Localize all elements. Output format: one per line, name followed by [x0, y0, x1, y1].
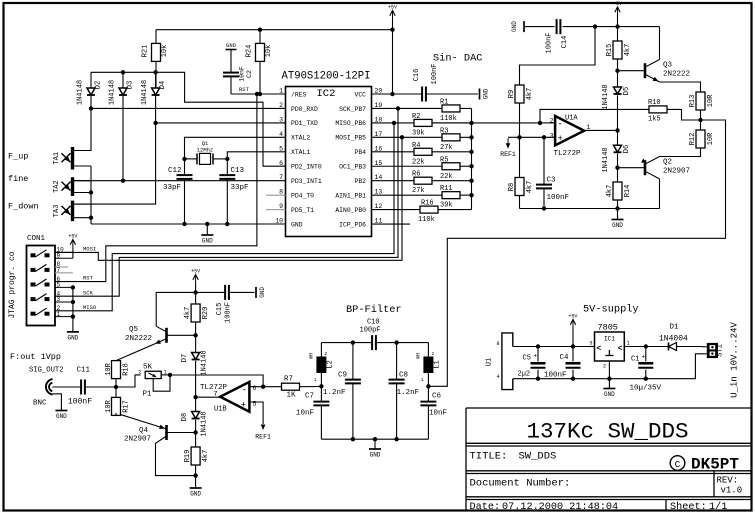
svg-text:22k: 22k	[440, 173, 453, 181]
svg-text:D7: D7	[181, 354, 189, 362]
inductor L1	[416, 343, 442, 387]
pin stubs CON1	[55, 252, 73, 316]
ref REF1 lower	[255, 424, 271, 441]
resistor R4	[372, 142, 472, 167]
svg-text:2N2907: 2N2907	[663, 168, 690, 176]
ic IC2 box	[286, 87, 372, 237]
svg-text:-: -	[242, 386, 247, 396]
svg-text:1: 1	[421, 377, 424, 383]
transistor Q2	[641, 157, 690, 179]
resistor R13	[689, 92, 715, 130]
wire supply bottom rail	[513, 354, 703, 379]
svg-text:TL272P: TL272P	[554, 150, 582, 158]
svg-text:D6: D6	[623, 145, 631, 153]
node output node	[114, 385, 118, 389]
ground BP filter	[369, 439, 381, 458]
svg-text:SW_DDS: SW_DDS	[519, 451, 557, 463]
node bus row 6	[469, 179, 473, 183]
power +5V supply	[568, 314, 577, 347]
wire Q3 collector	[659, 27, 661, 60]
svg-text:1N4004: 1N4004	[659, 335, 688, 344]
label U_in	[730, 322, 740, 398]
ic IC2 pin numbers	[275, 88, 382, 225]
node output D5 junction	[615, 128, 619, 132]
ground C15 side	[256, 287, 266, 298]
wire DAC output to opamp	[432, 122, 540, 124]
svg-text:+: +	[241, 401, 246, 411]
resistor R2	[372, 113, 472, 137]
node SCK tap	[396, 106, 400, 110]
node bus row 2	[469, 121, 473, 125]
svg-text:D1: D1	[670, 324, 680, 332]
svg-text:R5: R5	[440, 156, 448, 164]
svg-text:v1.0: v1.0	[721, 486, 743, 496]
node C4 top	[571, 344, 575, 348]
svg-text:R15: R15	[606, 44, 614, 57]
svg-text:C14: C14	[561, 36, 569, 49]
node D4 rail junction	[153, 70, 157, 74]
opamp U1B	[200, 382, 257, 413]
label TITLE row	[470, 451, 557, 463]
node +5V top rail junction	[390, 28, 394, 32]
node P1 feedback junction	[168, 373, 172, 377]
svg-text:10nF: 10nF	[429, 410, 447, 418]
node C4 bottom	[571, 377, 575, 381]
wire supply top rail	[513, 346, 595, 348]
svg-text:10R: 10R	[707, 132, 715, 145]
node CON1 pin5 gnd	[71, 285, 75, 289]
node +5V driver junction	[615, 24, 619, 28]
power +5V output stage	[191, 269, 200, 305]
node C1 top	[644, 344, 648, 348]
svg-text:C16: C16	[413, 69, 421, 82]
svg-text:PD1_TXD: PD1_TXD	[291, 120, 318, 127]
node CON1 pin1 gnd	[71, 314, 75, 318]
ground R19	[190, 488, 202, 498]
svg-text:GND: GND	[56, 413, 67, 420]
power +5V driver	[613, 1, 622, 16]
svg-text:39k: 39k	[440, 202, 453, 210]
svg-text:4k7: 4k7	[202, 450, 210, 463]
svg-text:GND: GND	[259, 287, 266, 298]
node C3 top junction	[542, 135, 546, 139]
diode D2	[77, 80, 103, 105]
label SIG_OUT2	[29, 367, 64, 375]
svg-text:MISO: MISO	[83, 304, 97, 311]
capacitor C6	[420, 386, 447, 439]
svg-text:AIN1_PB1: AIN1_PB1	[335, 192, 366, 199]
svg-text:REF1: REF1	[500, 151, 516, 158]
node bus row 3	[469, 135, 473, 139]
label JTAG prog connector	[8, 251, 17, 318]
wire U1B output	[196, 396, 221, 398]
pin PD4_T0 stub	[266, 194, 286, 196]
svg-text:2N2222: 2N2222	[663, 71, 690, 79]
wire +5V horizontal rail	[156, 29, 393, 31]
svg-text:137Kc SW_DDS: 137Kc SW_DDS	[527, 419, 689, 445]
svg-text:4k7: 4k7	[624, 44, 632, 57]
svg-text:RST: RST	[83, 275, 94, 282]
ground above C2	[226, 42, 237, 72]
svg-text:Sheet:: Sheet:	[670, 501, 707, 513]
svg-text:GND: GND	[370, 452, 381, 459]
svg-text:Q3: Q3	[663, 62, 673, 70]
svg-text:GND: GND	[291, 221, 303, 228]
svg-text:2N2907: 2N2907	[124, 436, 151, 444]
switch TA2	[53, 177, 91, 196]
label copyright DK5PT	[670, 456, 739, 474]
label main title	[527, 419, 689, 445]
label F_down	[8, 202, 39, 212]
svg-text:+: +	[558, 134, 563, 144]
svg-text:100nF: 100nF	[547, 194, 570, 202]
connector ST1	[703, 343, 725, 358]
wire D2 anode to TA1 and PD0_RXD	[74, 95, 92, 151]
svg-text:4: 4	[496, 374, 499, 380]
resistor R14	[606, 182, 632, 209]
connector CON1 box	[27, 246, 56, 326]
svg-text:IC2: IC2	[317, 88, 336, 100]
diode D7	[181, 335, 209, 375]
svg-text:TITLE:: TITLE:	[470, 451, 508, 463]
svg-text:-: -	[558, 120, 563, 130]
svg-text:U1A: U1A	[565, 114, 578, 122]
svg-text:C12: C12	[168, 167, 182, 175]
svg-text:DK5PT: DK5PT	[691, 456, 739, 474]
svg-text:RST: RST	[239, 86, 250, 93]
svg-text:MOSI_PB5: MOSI_PB5	[335, 135, 366, 142]
svg-text:GND: GND	[202, 238, 213, 245]
wire Q5 base	[167, 334, 196, 336]
resistor R20	[184, 304, 210, 335]
wire PD1_TXD row	[156, 122, 286, 124]
svg-text:+: +	[642, 354, 646, 361]
svg-text:1.2nF: 1.2nF	[323, 389, 346, 397]
node bus row 4	[469, 150, 473, 154]
svg-text:3: 3	[589, 340, 592, 347]
svg-text:10k: 10k	[265, 45, 273, 58]
label Sin- DAC	[433, 53, 482, 65]
svg-text:1.2nF: 1.2nF	[397, 389, 420, 397]
svg-text:R24: R24	[246, 45, 254, 58]
wire Q3 base	[618, 70, 646, 72]
ic IC1 7805	[589, 332, 630, 370]
wire Q2 collector	[659, 179, 661, 209]
svg-text:1: 1	[279, 88, 283, 95]
svg-text:SCK: SCK	[83, 289, 94, 296]
svg-text:7: 7	[279, 174, 283, 181]
node MISO tap	[392, 121, 396, 125]
transistor Q5	[116, 326, 167, 361]
svg-text:+: +	[534, 353, 538, 360]
diode D6	[602, 130, 631, 172]
svg-text:R8: R8	[508, 183, 516, 191]
svg-text:10R: 10R	[707, 94, 715, 107]
svg-text:<: <	[597, 345, 602, 354]
inductor L2	[309, 343, 335, 387]
svg-text:1N4148: 1N4148	[602, 147, 610, 172]
svg-text:C2: C2	[246, 70, 253, 78]
svg-text:SIG_OUT2: SIG_OUT2	[29, 367, 64, 375]
node Q3 base junction	[615, 69, 619, 73]
svg-text:U1: U1	[486, 358, 494, 366]
svg-text:2N2222: 2N2222	[125, 335, 152, 343]
svg-text:10R: 10R	[105, 362, 113, 375]
label RST net	[239, 86, 250, 93]
resistor R3	[372, 127, 472, 152]
node C12 gnd junction	[182, 222, 186, 226]
power +5V CON1	[68, 234, 77, 259]
capacitor C12	[163, 159, 193, 224]
node bus row 5	[469, 164, 473, 168]
diode D5	[602, 84, 631, 109]
node C14 R9 junction	[593, 24, 597, 28]
label 5V-supply	[583, 304, 639, 316]
wire XTAL2 to crystal	[185, 137, 286, 159]
svg-text:1/1: 1/1	[709, 501, 727, 513]
svg-text:C7: C7	[305, 393, 314, 401]
svg-text:7805: 7805	[598, 323, 618, 333]
svg-text:33pF: 33pF	[231, 184, 249, 192]
node C9 gnd junction	[351, 437, 355, 441]
wire switch ground bus	[90, 166, 92, 224]
wire Q3 emitter to R13	[660, 82, 701, 92]
svg-text:Q5: Q5	[129, 326, 139, 334]
svg-text:2: 2	[138, 369, 141, 376]
svg-text:/RES: /RES	[291, 91, 307, 98]
node D2 PD0_RXD junction	[89, 106, 93, 110]
svg-text:C3: C3	[547, 177, 557, 185]
svg-text:3: 3	[550, 133, 554, 140]
node TA2 gnd junction	[89, 190, 93, 194]
svg-text:4k7: 4k7	[184, 307, 192, 320]
svg-text:R12: R12	[689, 133, 697, 146]
wire D6 to Q2 base	[618, 154, 646, 182]
connector BNC	[33, 379, 81, 407]
capacitor C8	[389, 343, 420, 440]
svg-text:C4: C4	[560, 354, 570, 362]
svg-text:GND: GND	[604, 391, 615, 398]
wire feedback up	[540, 109, 649, 123]
svg-text:C: C	[675, 459, 681, 470]
svg-text:Q2: Q2	[663, 159, 672, 167]
node R19 gnd junction	[193, 473, 197, 477]
node R24 bottom junction	[258, 92, 262, 96]
svg-text:PB2: PB2	[354, 178, 366, 185]
capacitor C13	[219, 159, 248, 224]
ground IC1	[603, 379, 615, 398]
wire emitter node to BP filter	[428, 120, 725, 386]
svg-text:GND: GND	[511, 21, 518, 32]
svg-text:100pF: 100pF	[360, 327, 381, 335]
svg-text:F:out 1Vpp: F:out 1Vpp	[10, 352, 61, 362]
svg-text:ST1: ST1	[717, 344, 725, 357]
svg-text:TA1: TA1	[53, 152, 61, 165]
svg-text:Document Number:: Document Number:	[470, 478, 571, 490]
node U1B out junction	[193, 395, 197, 399]
svg-text:REV:: REV:	[717, 476, 739, 486]
wire DAC summing bus	[471, 108, 473, 209]
svg-text:1: 1	[314, 377, 317, 383]
svg-text:5K: 5K	[143, 364, 153, 372]
svg-text:D2: D2	[95, 81, 103, 89]
wire inv input	[540, 122, 555, 124]
svg-text:TL272P: TL272P	[200, 384, 228, 392]
label REV	[717, 476, 743, 496]
resistor R21	[142, 30, 170, 88]
node C5 bottom	[536, 377, 540, 381]
capacitor C3	[536, 137, 569, 208]
svg-text:6: 6	[279, 160, 283, 167]
svg-text:R16: R16	[421, 200, 434, 208]
label Sheet	[670, 501, 727, 513]
node RST vertical junction	[255, 92, 259, 96]
node C8 gnd junction	[394, 437, 398, 441]
svg-text:R9: R9	[508, 90, 516, 98]
svg-text:XTAL1: XTAL1	[291, 149, 310, 156]
label F:out 1Vpp	[10, 352, 61, 362]
node R24 top junction	[258, 28, 262, 32]
node CON1 pin3 gnd	[71, 300, 75, 304]
svg-text:C13: C13	[231, 167, 245, 175]
crystal Q1	[185, 140, 228, 164]
svg-text:3: 3	[279, 116, 283, 123]
svg-text:1N4148: 1N4148	[201, 411, 209, 436]
svg-text:fine: fine	[8, 174, 28, 184]
svg-text:ICP_PD6: ICP_PD6	[339, 221, 366, 228]
node C8 top junction	[394, 340, 398, 344]
svg-text:L2: L2	[327, 360, 335, 368]
ground BNC	[53, 394, 68, 420]
svg-text:Q4: Q4	[139, 427, 149, 435]
switch TA1	[53, 147, 91, 170]
svg-text:R21: R21	[142, 45, 150, 58]
svg-text:5V-supply: 5V-supply	[583, 304, 639, 316]
svg-text:27k: 27k	[412, 187, 425, 195]
svg-text:GND: GND	[67, 334, 78, 341]
node C5 top	[536, 344, 540, 348]
wire BP gnd rail	[321, 438, 428, 440]
resistor R19	[184, 447, 210, 488]
wire MISO route	[55, 123, 394, 311]
node emitter node	[698, 118, 702, 122]
capacitor C9	[323, 343, 361, 440]
svg-text:CON1: CON1	[27, 235, 46, 243]
wire IC1 out rail	[624, 346, 669, 348]
svg-text:39k: 39k	[412, 129, 425, 137]
svg-text:R20: R20	[202, 307, 210, 320]
svg-text:22k: 22k	[412, 158, 425, 166]
resistor R16	[372, 200, 472, 225]
svg-text:U1B: U1B	[214, 405, 227, 413]
svg-text:5: 5	[279, 145, 283, 152]
svg-text:C11: C11	[77, 367, 91, 375]
label 7805	[598, 323, 618, 333]
svg-text:VCC: VCC	[354, 91, 366, 98]
wire IC1 pin2	[608, 361, 610, 379]
resistor R15	[606, 41, 632, 87]
svg-text:8: 8	[496, 341, 499, 347]
node gnd stub junction	[205, 222, 209, 226]
wire output node to P1	[116, 375, 141, 387]
node Q2 base junction	[615, 166, 619, 170]
label F_up	[8, 152, 28, 162]
wire TA2 top contact	[74, 180, 124, 182]
wire U1B feedback	[170, 375, 263, 387]
svg-text:GND: GND	[483, 88, 490, 99]
diode D4	[141, 80, 167, 105]
svg-text:100nF: 100nF	[546, 32, 554, 53]
label Document Number	[470, 478, 571, 490]
svg-text:1N4148: 1N4148	[77, 80, 85, 105]
node U1B inv junction	[261, 385, 265, 389]
capacitor C11	[68, 367, 116, 407]
svg-text:MOSI: MOSI	[83, 246, 96, 253]
svg-text:mH: mH	[416, 353, 422, 359]
svg-text:10µ/35V: 10µ/35V	[630, 385, 662, 393]
ic IC2 pin names	[291, 91, 366, 228]
connector CON1 pin numbers	[57, 247, 65, 318]
capacitor C10	[321, 319, 428, 351]
svg-text:6: 6	[253, 385, 257, 392]
label RST	[83, 275, 94, 282]
svg-text:R4: R4	[412, 142, 420, 150]
node Q5 base junction	[193, 333, 197, 337]
resistor R9	[508, 85, 534, 137]
svg-text:Sin- DAC: Sin- DAC	[433, 53, 482, 65]
svg-text:R13: R13	[689, 95, 697, 108]
svg-text:1N4148: 1N4148	[109, 80, 117, 105]
node D4 PD1_TXD junction	[153, 121, 157, 125]
wire CON1 gnd bus	[72, 287, 74, 332]
resistor R5	[372, 156, 472, 181]
wire +5V vertical to VCC pin 20	[392, 20, 394, 95]
svg-text:27k: 27k	[440, 144, 453, 152]
node D3 rail junction	[121, 70, 125, 74]
svg-text:D8: D8	[181, 413, 189, 421]
svg-text:GND: GND	[612, 222, 623, 229]
capacitor C4	[544, 347, 581, 380]
diode D3	[109, 80, 135, 105]
svg-text:TA3: TA3	[53, 205, 61, 218]
svg-text:F_up: F_up	[8, 152, 28, 162]
svg-text:R14: R14	[624, 185, 632, 198]
ground C16 side	[480, 88, 490, 99]
svg-text:10: 10	[275, 218, 283, 225]
node Q4 base junction	[193, 430, 197, 434]
svg-text:R6: R6	[412, 171, 420, 179]
label fine	[8, 174, 28, 184]
node L1 C6 junction	[426, 384, 430, 388]
wire Q4 collector	[156, 443, 196, 475]
node R9 noninv junction	[517, 135, 521, 139]
svg-text:PD5_T1: PD5_T1	[291, 207, 314, 214]
resistor R18	[105, 361, 131, 398]
wire D3 anode to PD3_INT1 row	[123, 95, 286, 181]
svg-text:1K: 1K	[287, 391, 297, 399]
capacitor C15	[196, 285, 255, 323]
svg-text:L1: L1	[434, 360, 442, 368]
svg-text:C5: C5	[523, 355, 531, 363]
svg-text:SCK_PB7: SCK_PB7	[339, 106, 366, 113]
label MOSI	[83, 246, 96, 253]
resistor R1	[372, 98, 472, 123]
svg-text:2: 2	[279, 102, 283, 109]
svg-text:IC1: IC1	[604, 336, 615, 343]
wire pin1 RST row	[231, 93, 286, 95]
svg-text:GND: GND	[190, 491, 201, 498]
wire GND rail pin10	[91, 223, 286, 225]
